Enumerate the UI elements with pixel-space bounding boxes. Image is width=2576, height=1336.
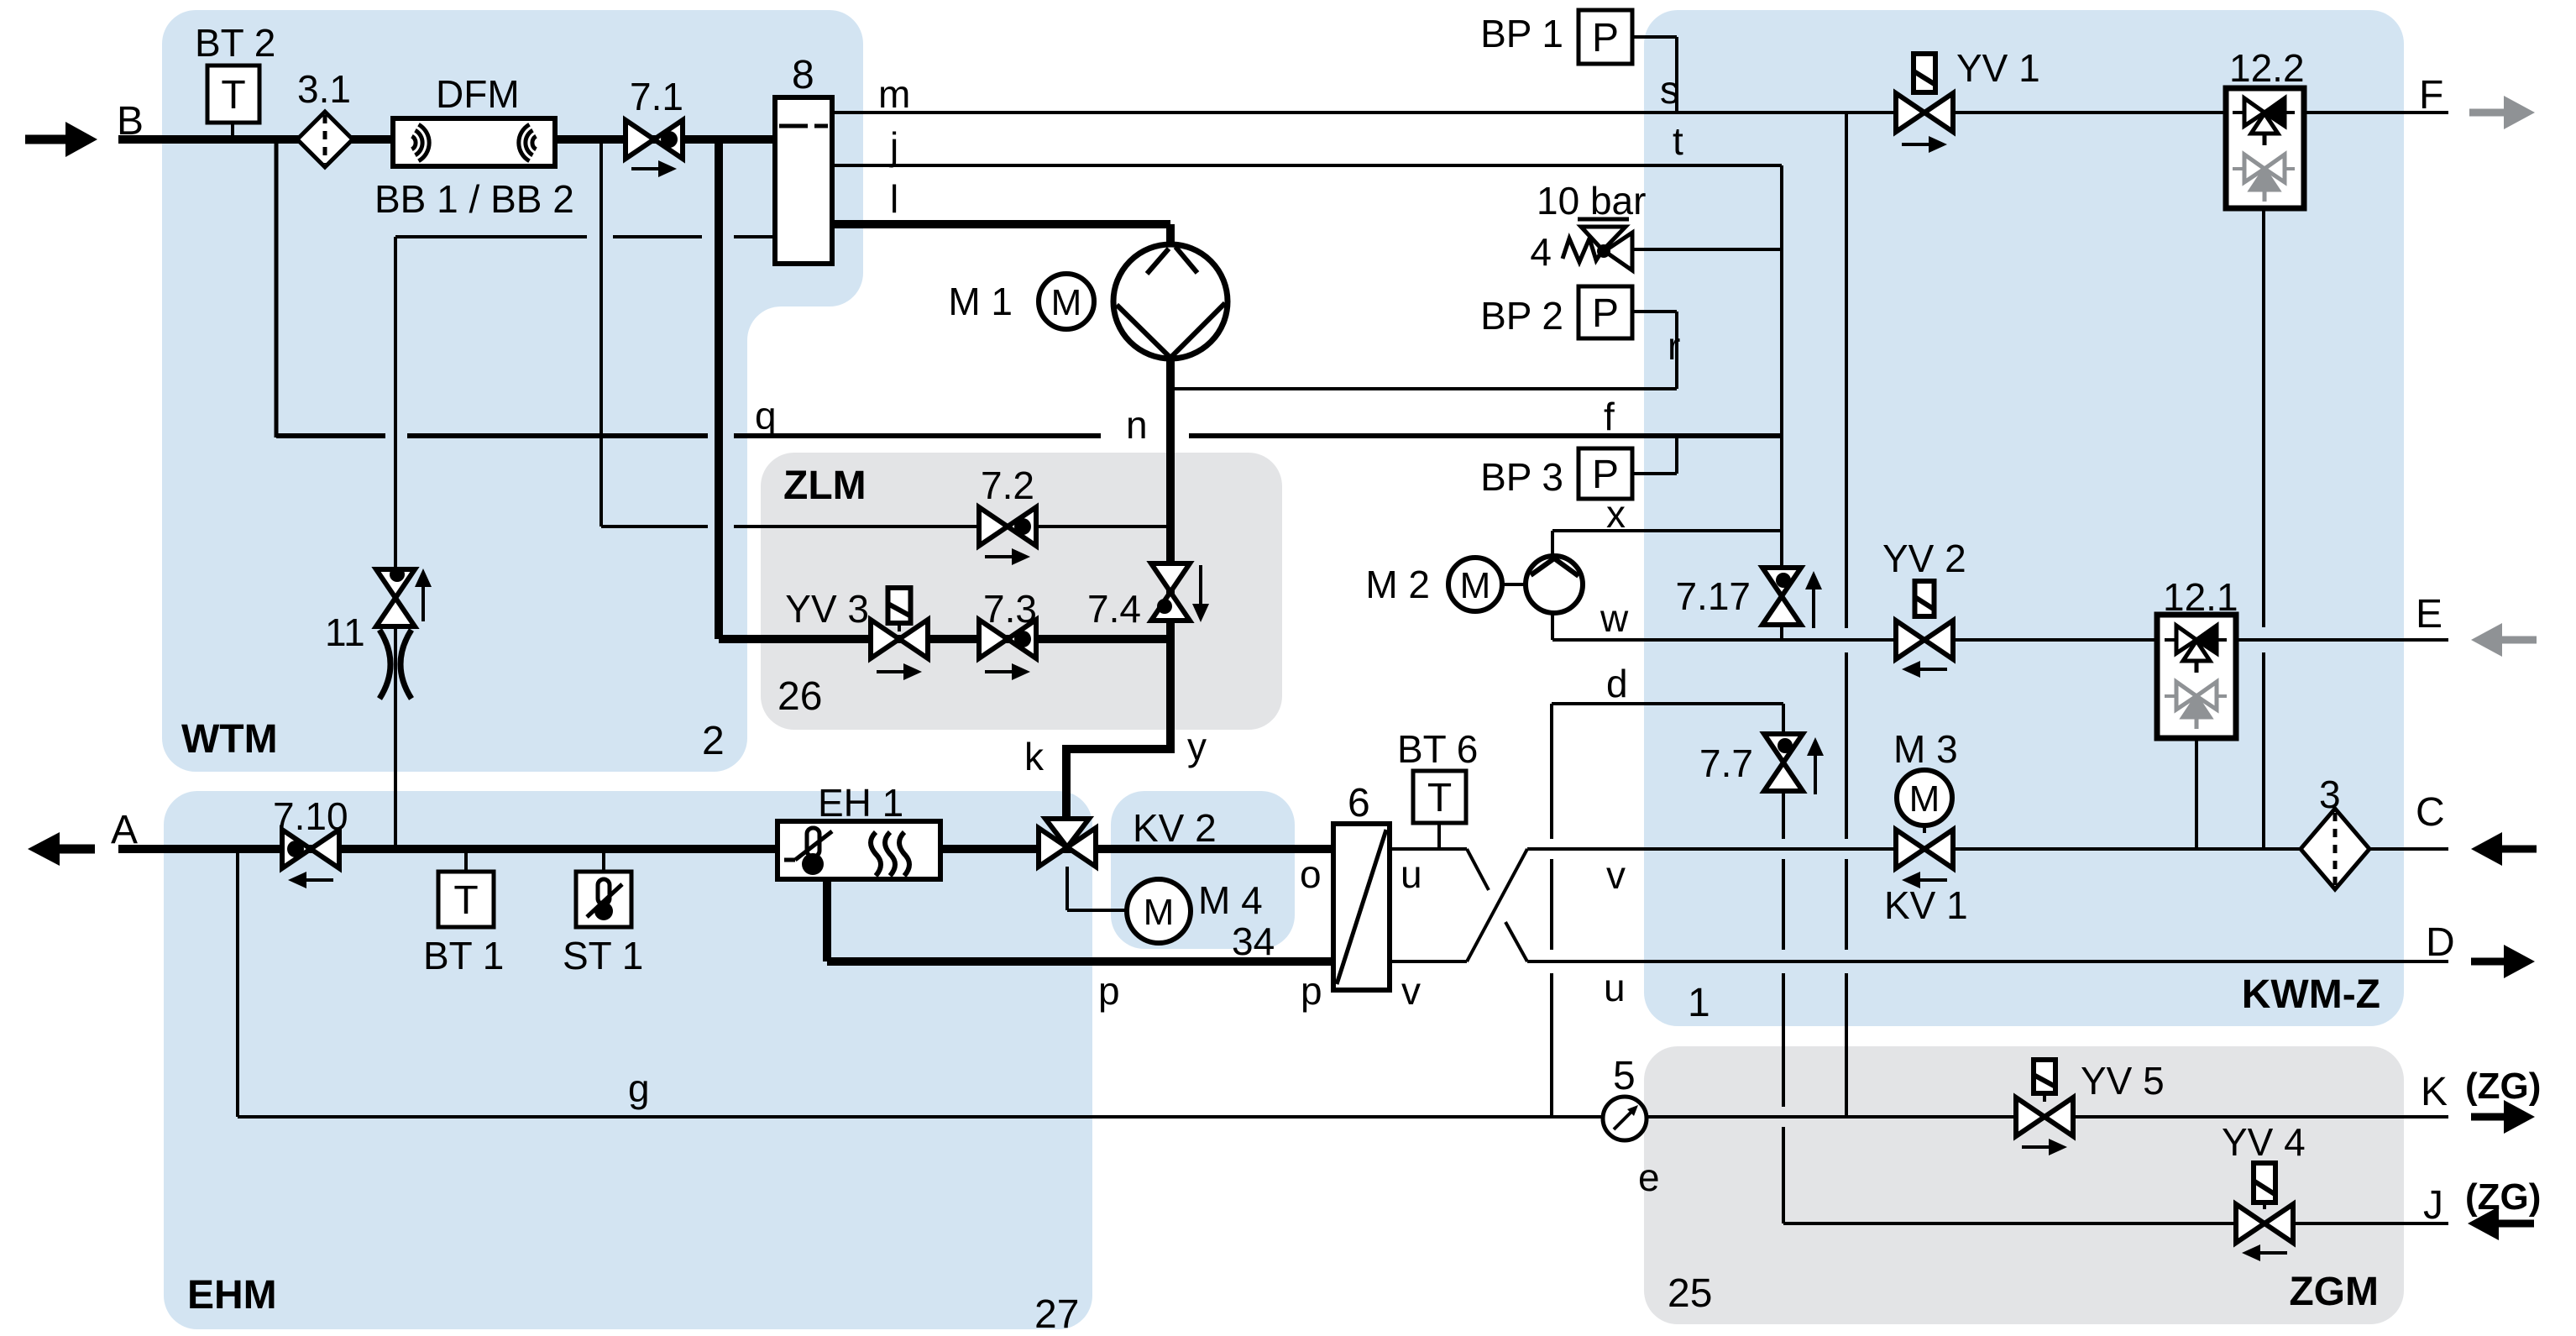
- svg-text:7.10: 7.10: [273, 794, 348, 838]
- valve 7.7: [1764, 734, 1803, 762]
- wire t column vertical (x=2122): [1780, 165, 1783, 569]
- svg-text:r: r: [1668, 324, 1680, 368]
- wire BT1 stem: [464, 849, 468, 872]
- motor M4: [1127, 879, 1191, 943]
- valve KV1: [1923, 825, 1926, 833]
- wire C line: [1527, 847, 2448, 851]
- KWM-Z module background block: [1644, 10, 2404, 1026]
- svg-text:n: n: [1126, 403, 1148, 447]
- svg-text:(ZG): (ZG): [2465, 1176, 2541, 1218]
- svg-text:T: T: [1427, 776, 1452, 820]
- svg-text:E: E: [2416, 592, 2442, 637]
- svg-text:j: j: [888, 124, 898, 168]
- valve YV3: [888, 588, 911, 623]
- wire B main line: [118, 135, 775, 144]
- svg-text:t: t: [1673, 119, 1683, 163]
- svg-text:J: J: [2423, 1183, 2443, 1228]
- svg-text:EHM: EHM: [187, 1273, 277, 1318]
- svg-text:T: T: [453, 878, 478, 923]
- wire YV3 / 7.3 branch line (thick): [719, 635, 1170, 643]
- svg-text:ST 1: ST 1: [563, 934, 643, 977]
- svg-text:P: P: [1592, 16, 1619, 60]
- KV2 module background block: [1111, 791, 1295, 949]
- valve 7.17: [1762, 568, 1801, 596]
- svg-text:3: 3: [2319, 773, 2341, 816]
- svg-text:g: g: [628, 1066, 650, 1110]
- wire separator bypass line at y282: [395, 235, 587, 238]
- svg-text:5: 5: [1613, 1054, 1636, 1098]
- svg-text:7.4: 7.4: [1087, 587, 1141, 631]
- svg-text:BP 2: BP 2: [1480, 294, 1563, 338]
- svg-text:BT 1: BT 1: [423, 934, 504, 977]
- output arrow D: [2471, 958, 2506, 966]
- wire g branch vertical (x=283): [236, 849, 239, 1117]
- wire EH1 bottom stem (thick): [823, 879, 831, 961]
- ZLM module background block: [761, 453, 1282, 730]
- svg-text:M: M: [1909, 778, 1940, 820]
- wire A main line (thick): [118, 845, 1333, 853]
- valve YV5: [2034, 1060, 2055, 1093]
- wire BP1 pigtail: [1632, 35, 1677, 39]
- pressure sensor BP1: [1579, 10, 1632, 64]
- wire d branch vertical (x=1848): [1550, 704, 1553, 839]
- svg-text:KV 2: KV 2: [1133, 806, 1217, 850]
- wire m / F line: [832, 111, 2448, 114]
- wire l line (thick): [832, 220, 1170, 228]
- svg-text:T: T: [221, 73, 245, 118]
- svg-text:p: p: [1098, 969, 1120, 1013]
- wire J line: [1783, 1222, 2448, 1225]
- wire thick elbow from 7.4 down to valve k: [1062, 745, 1175, 753]
- input arrow E (gray): [2471, 623, 2502, 657]
- svg-text:7.3: 7.3: [983, 587, 1037, 631]
- svg-text:M 1: M 1: [948, 280, 1013, 323]
- svg-text:M: M: [1051, 282, 1082, 323]
- svg-text:YV 3: YV 3: [785, 587, 869, 631]
- svg-text:8: 8: [792, 53, 814, 97]
- wire q / n / f line: [276, 433, 385, 438]
- wire p line (thick) from EH1 to exchanger: [827, 957, 1333, 966]
- wire u / D line: [1527, 960, 2448, 963]
- svg-text:F: F: [2419, 73, 2443, 118]
- svg-text:M 3: M 3: [1893, 727, 1958, 771]
- svg-text:YV 4: YV 4: [2222, 1120, 2306, 1164]
- pressure sensor BP3: [1579, 448, 1632, 499]
- svg-text:10 bar: 10 bar: [1537, 179, 1646, 223]
- svg-text:YV 2: YV 2: [1882, 537, 1966, 580]
- svg-text:e: e: [1638, 1155, 1660, 1199]
- svg-text:YV 5: YV 5: [2081, 1059, 2165, 1103]
- EHM module background block: [164, 791, 1092, 1329]
- heat exchanger 6: [1333, 824, 1390, 990]
- svg-text:ZLM: ZLM: [783, 464, 867, 508]
- svg-text:4: 4: [1530, 230, 1552, 274]
- wire g line: [238, 1115, 1552, 1119]
- wire w / E line: [1552, 638, 2448, 642]
- wire 12.1 stem vertical (x=2616): [2195, 734, 2198, 849]
- wire motor M2 link: [1502, 583, 1526, 586]
- svg-text:34: 34: [1232, 919, 1275, 963]
- sensor BT2: [207, 65, 259, 123]
- pressure gauge 5: [1603, 1097, 1647, 1140]
- svg-text:7.2: 7.2: [981, 464, 1034, 507]
- wire vertical B to 7.2 branch (x=716): [599, 139, 603, 527]
- input arrow A: [28, 832, 60, 866]
- wire x line: [1552, 529, 1782, 532]
- svg-text:1: 1: [1688, 981, 1710, 1025]
- svg-text:BP 3: BP 3: [1480, 455, 1563, 499]
- svg-text:KV 1: KV 1: [1884, 883, 1968, 927]
- wire exchanger bottom-right v segment: [1390, 960, 1467, 963]
- filter 3.1: [297, 112, 353, 167]
- svg-text:3.1: 3.1: [297, 67, 351, 111]
- sensor BT6: [1413, 771, 1466, 823]
- svg-text:v: v: [1401, 969, 1421, 1013]
- svg-text:u: u: [1401, 852, 1422, 896]
- svg-text:M 4: M 4: [1198, 878, 1263, 922]
- svg-text:d: d: [1606, 662, 1628, 705]
- pressure sensor BP2: [1579, 286, 1632, 338]
- exchanger crossover diagonals: [1467, 849, 1489, 890]
- wire BT2 stem: [231, 123, 234, 139]
- input arrow C: [2471, 832, 2502, 866]
- svg-text:f: f: [1604, 395, 1615, 438]
- svg-text:11: 11: [325, 610, 365, 654]
- wire ST1 stem: [602, 849, 605, 872]
- svg-text:27: 27: [1034, 1292, 1079, 1336]
- wire M2 pump x/w verticals (x=1849): [1551, 531, 1554, 558]
- WTM module background block: [162, 10, 863, 772]
- svg-text:m: m: [878, 72, 910, 116]
- svg-text:YV 1: YV 1: [1956, 46, 2040, 90]
- valve 7.3: [979, 620, 1008, 658]
- valve 7.4: [1151, 563, 1190, 592]
- pump M1: [1113, 244, 1228, 359]
- wire r line: [1170, 387, 1677, 390]
- svg-text:7.1: 7.1: [630, 75, 683, 118]
- svg-text:l: l: [890, 177, 898, 221]
- wire BT6 stem: [1437, 823, 1441, 849]
- svg-text:K: K: [2421, 1070, 2448, 1114]
- svg-text:7.17: 7.17: [1675, 574, 1751, 618]
- svg-text:BP 1: BP 1: [1480, 12, 1563, 55]
- svg-text:7.7: 7.7: [1699, 741, 1753, 785]
- svg-text:u: u: [1604, 966, 1626, 1009]
- svg-text:y: y: [1187, 725, 1207, 768]
- svg-text:12.1: 12.1: [2163, 575, 2238, 619]
- wire safety valve 4 line: [1634, 248, 1782, 251]
- wire exchanger top-right u segment: [1390, 847, 1467, 851]
- throttle symbol below valve 11: [380, 630, 390, 699]
- svg-text:(ZG): (ZG): [2465, 1066, 2541, 1107]
- heater EH1: [778, 821, 940, 879]
- svg-text:DFM: DFM: [436, 72, 520, 116]
- motor M1: [1039, 274, 1094, 329]
- wire BP3 pigtail: [1631, 472, 1677, 475]
- sensor BT1: [438, 872, 494, 927]
- svg-text:BT 2: BT 2: [195, 21, 275, 65]
- check valve block 12.2: [2226, 88, 2304, 208]
- valve 7.10: [282, 830, 311, 868]
- valve YV2: [1915, 581, 1935, 616]
- svg-text:25: 25: [1668, 1271, 1712, 1316]
- svg-text:v: v: [1606, 853, 1626, 897]
- sensor ST1 (safety thermostat): [576, 872, 631, 927]
- wire J column vertical (x=2124): [1782, 704, 1785, 736]
- wire 12.2 stem vertical (x=2696): [2262, 208, 2265, 627]
- svg-text:M: M: [1144, 892, 1175, 933]
- pump M2: [1526, 556, 1583, 613]
- svg-text:M 2: M 2: [1365, 563, 1430, 606]
- check valve block 12.1: [2157, 615, 2236, 738]
- svg-text:q: q: [755, 394, 777, 437]
- svg-text:BB 1 / BB 2: BB 1 / BB 2: [374, 177, 574, 221]
- wire s column vertical (x=2199): [1845, 113, 1848, 628]
- valve 7.2: [979, 507, 1008, 546]
- valve YV4: [2254, 1163, 2275, 1202]
- wire thick vertical pump M1 column (x=1394): [1166, 224, 1175, 248]
- wire d line: [1552, 702, 1783, 705]
- wire vertical from B junction down to q corner (x=329): [275, 139, 279, 437]
- svg-text:KWM-Z: KWM-Z: [2242, 972, 2380, 1017]
- svg-text:WTM: WTM: [181, 717, 278, 762]
- svg-text:12.2: 12.2: [2229, 46, 2305, 90]
- svg-text:p: p: [1301, 969, 1322, 1013]
- separator 8: [775, 97, 832, 264]
- svg-text:D: D: [2426, 920, 2455, 965]
- filter 3: [2301, 809, 2369, 889]
- wire valve k to motor M4: [1065, 867, 1069, 910]
- output arrow F (gray): [2469, 109, 2506, 117]
- wire vertical bypass with valve 11 (x=471): [394, 237, 397, 569]
- label 7.10 above done; valve k (3-way): [1039, 828, 1067, 867]
- input arrow J: [2468, 1207, 2499, 1240]
- svg-text:P: P: [1592, 453, 1619, 497]
- svg-text:EH 1: EH 1: [818, 781, 903, 825]
- valve YV1: [1914, 54, 1935, 92]
- wire thick vertical down to valve k (x=1270): [1062, 749, 1071, 820]
- valve 11: [376, 569, 415, 598]
- svg-text:w: w: [1600, 596, 1629, 640]
- motor M3: [1897, 770, 1952, 825]
- motor M2: [1448, 558, 1502, 611]
- ZGM module background block: [1644, 1046, 2404, 1324]
- svg-text:M: M: [1460, 565, 1491, 606]
- wire gauge stub and K line: [1552, 1115, 1603, 1119]
- wire 7.2 branch line: [601, 525, 708, 528]
- svg-text:BT 6: BT 6: [1397, 727, 1478, 771]
- input arrow B: [25, 135, 69, 144]
- wire thick vertical B to YV3 branch (x=856): [715, 139, 723, 639]
- svg-text:P: P: [1592, 291, 1619, 336]
- svg-text:k: k: [1024, 735, 1045, 778]
- svg-text:C: C: [2416, 790, 2445, 835]
- svg-text:o: o: [1300, 852, 1322, 896]
- wire j / t line: [832, 164, 1782, 167]
- wire BP2 pigtail: [1634, 310, 1677, 313]
- flow meter DFM (BB 1 / BB 2): [393, 118, 555, 166]
- svg-text:ZGM: ZGM: [2289, 1270, 2379, 1314]
- svg-text:26: 26: [778, 674, 822, 719]
- svg-text:2: 2: [702, 719, 725, 763]
- svg-text:6: 6: [1348, 781, 1370, 825]
- valve 7.1: [626, 120, 654, 159]
- output arrow K: [2471, 1113, 2506, 1121]
